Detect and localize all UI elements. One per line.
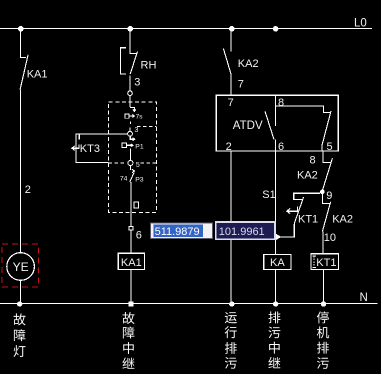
coil KA1 [118, 253, 144, 269]
dashed internal dividers [109, 127, 157, 163]
wire L0 top rail [0, 28, 372, 30]
svg-text:7: 7 [238, 79, 244, 91]
tiny contact row 2: box, arrow, P1 [122, 143, 127, 148]
svg-text:KT1: KT1 [316, 257, 336, 269]
svg-text:L0: L0 [354, 18, 367, 30]
junction arrow on col4 [275, 233, 281, 240]
terminal circle col2 [128, 91, 133, 96]
small square symbol [134, 202, 138, 208]
svg-text:2: 2 [25, 184, 31, 196]
svg-text:7s: 7s [136, 114, 144, 121]
terminal circle a [128, 131, 133, 136]
svg-text:KA2: KA2 [238, 58, 259, 70]
node junction dot col2 top [127, 26, 133, 32]
svg-text:8: 8 [310, 154, 316, 166]
lamp YE [7, 253, 35, 281]
svg-text:P3: P3 [135, 176, 144, 183]
selection box (red dashed) around YE [2, 244, 38, 287]
svg-text:3: 3 [135, 127, 139, 134]
svg-text:ATDV: ATDV [233, 120, 263, 132]
ATDV internal changeover [265, 95, 331, 151]
KT3 connection line upper [76, 133, 128, 135]
node junction dot col4 top [273, 26, 279, 32]
hook arrow 1 [130, 108, 136, 112]
svg-text:74: 74 [120, 176, 128, 183]
wire into KT3 box [129, 96, 131, 108]
svg-text:6: 6 [278, 141, 284, 153]
small mark below terminal [131, 166, 135, 173]
svg-text:KT1: KT1 [298, 213, 318, 225]
device ATDV box [216, 95, 338, 151]
svg-text:6: 6 [136, 229, 142, 241]
svg-text:5: 5 [327, 141, 333, 153]
hook arrow 2 [130, 136, 134, 140]
contact KA2 (NO) column 5 lower [322, 194, 330, 232]
label 故障中继 (fault relay) [122, 312, 134, 369]
contact KT1 (NC, delayed) branch [276, 193, 320, 237]
wire coil KA to N [275, 269, 277, 303]
wire lamp to N [19, 280, 21, 303]
coil KA [264, 255, 291, 270]
svg-text:5: 5 [136, 162, 140, 169]
svg-text:10: 10 [324, 232, 336, 244]
contact RH thermal relay (NC) column 2 [121, 29, 138, 91]
wire coil KA1 to N [130, 270, 132, 304]
wire to coil KT1 [322, 232, 324, 254]
contact KA2 (NO) column 3 [223, 29, 231, 96]
dynamic input Y field 101.9961 [216, 222, 275, 239]
wire N bottom rail [0, 303, 378, 305]
wire down through box [130, 182, 132, 226]
tiny contact row 1: box, arrow, 7s [125, 114, 129, 118]
label 运行排污 (run blowdown) [225, 312, 237, 369]
svg-text:7: 7 [228, 97, 234, 109]
coil KT1 [311, 254, 338, 270]
wire col4 below ATDV [275, 151, 277, 255]
svg-text:YE: YE [13, 260, 29, 274]
label 停机排污 (shutdown blowdown) [317, 311, 329, 368]
svg-text:101.9961: 101.9961 [219, 226, 265, 238]
node junction dot col3 bottom [229, 301, 234, 306]
node junction dot col1 top [18, 26, 24, 32]
node 9 junction dot [320, 190, 325, 195]
contact KA2 (NO) column 5 upper [322, 151, 332, 192]
terminal square col2 [129, 226, 133, 230]
svg-text:S1: S1 [262, 189, 275, 201]
wire to terminal 5 [129, 149, 131, 161]
svg-text:KA2: KA2 [332, 213, 353, 225]
node junction dot col5 bottom [321, 301, 326, 306]
svg-text:8: 8 [278, 97, 284, 109]
svg-text:P1: P1 [135, 143, 144, 150]
svg-text:KA2: KA2 [297, 170, 318, 182]
node junction dot col3 top [229, 26, 235, 32]
svg-text:511.9879: 511.9879 [155, 226, 200, 238]
wire coil KT1 to N [322, 269, 324, 303]
svg-text:KA1: KA1 [27, 69, 48, 81]
svg-text:N: N [360, 292, 368, 304]
timer KT3 dashed enclosure [109, 102, 157, 212]
timer bracket KT3 [72, 134, 109, 162]
svg-text:KA: KA [270, 257, 285, 269]
terminal circle b [128, 161, 133, 166]
wire col3 below ATDV to N [230, 151, 232, 304]
wire 6 to coil KA1 [130, 230, 132, 253]
node junction dot col4 bottom [273, 301, 278, 306]
contact KA1 (NO) column 1 [20, 29, 28, 90]
dynamic input X field 511.9879 [151, 223, 213, 239]
svg-text:KT3: KT3 [80, 143, 100, 155]
node junction marker col2 bottom [129, 302, 134, 307]
node junction dot col1 bottom [17, 301, 22, 306]
label 排污中继 (blowdown relay) [268, 311, 280, 368]
svg-text:KA1: KA1 [121, 257, 142, 269]
svg-text:3: 3 [134, 77, 140, 89]
tick [130, 121, 132, 124]
svg-text:RH: RH [141, 60, 157, 72]
svg-text:9: 9 [326, 190, 332, 202]
wire col1 down to lamp [19, 90, 21, 253]
label 故障灯 (fault lamp) [14, 313, 26, 357]
